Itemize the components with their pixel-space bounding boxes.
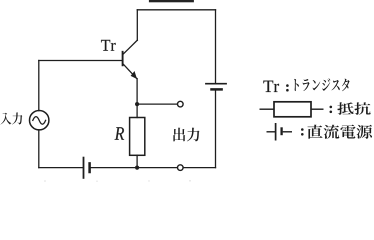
terminal circle output bottom [178, 165, 184, 171]
battery B2 short plate [88, 163, 91, 172]
legend colon 3 [301, 128, 304, 131]
legend resistor symbol lead right [311, 108, 324, 110]
legend resistor symbol box [274, 102, 311, 117]
wire right vertical upper [215, 10, 217, 83]
legend 直流電源 [308, 125, 373, 139]
legend resistor symbol lead left [260, 108, 275, 110]
wire bottom left [39, 167, 83, 169]
wire collector vertical [136, 10, 138, 40]
transistor Q1 emitter arrow [131, 71, 137, 79]
battery B2 long plate [83, 158, 85, 178]
wire resistor bottom lead [136, 155, 138, 167]
wire top [137, 9, 215, 11]
battery B1 short plate [212, 88, 222, 91]
transistor Q1 emitter diagonal [123, 64, 137, 79]
wire bottom middle [91, 167, 178, 169]
legend battery symbol lead right [283, 131, 292, 133]
label Tr [101, 40, 116, 51]
wire bottom right [183, 167, 215, 169]
label 出力 [173, 128, 199, 142]
battery B1 long plate [206, 83, 226, 85]
wire left vertical lower [38, 130, 40, 168]
ac source V1 circle [30, 111, 49, 130]
transistor Q1 base bar [122, 52, 124, 66]
wire emitter vertical [136, 79, 138, 105]
legend 抵抗 [337, 102, 370, 115]
legend battery symbol long plate [275, 123, 277, 141]
resistor R body [130, 118, 145, 156]
label R [115, 127, 124, 139]
wire left vertical upper [38, 61, 40, 111]
wire base [39, 60, 122, 62]
ac source V1 sine [33, 117, 46, 125]
legend Tr [263, 81, 279, 92]
wire right vertical lower [215, 91, 217, 168]
junction dot bottom node [135, 166, 139, 170]
transistor Q1 collector diagonal [123, 40, 138, 54]
legend トランジスタ [294, 78, 349, 91]
legend battery symbol short plate [280, 127, 282, 135]
faint page artifacts [44, 180, 191, 182]
legend battery symbol lead left [267, 131, 276, 133]
wire resistor top lead [136, 104, 138, 117]
legend colon 1 [286, 84, 289, 87]
legend colon 2 [330, 106, 333, 109]
terminal circle output top [178, 101, 184, 107]
top cropped bar artifact [149, 0, 194, 2]
wire output top [137, 103, 177, 105]
junction dot node E [135, 102, 139, 106]
label 入力 [0, 113, 22, 125]
